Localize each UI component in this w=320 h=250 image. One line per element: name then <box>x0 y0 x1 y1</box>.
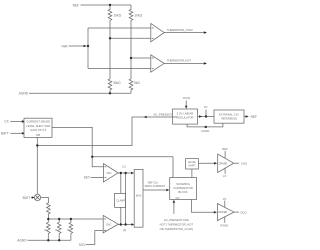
svg-text:R: R <box>67 228 69 232</box>
svg-text:R: R <box>44 228 46 232</box>
svg-text:AC_PRESENT: AC_PRESENT <box>153 112 172 116</box>
svg-text:LX: LX <box>223 174 227 178</box>
svg-text:DAC: DAC <box>107 172 112 175</box>
svg-text:PGND: PGND <box>220 224 228 228</box>
svg-text:THERMISTOR_HOT: THERMISTOR_HOT <box>167 59 191 63</box>
svg-text:DAC: DAC <box>106 223 111 226</box>
svg-text:GAIN OF 5.5: GAIN OF 5.5 <box>30 128 47 132</box>
svg-text:P1: P1 <box>223 197 227 201</box>
svg-text:DB: DB <box>36 133 40 137</box>
svg-text:DCO: DCO <box>241 210 248 214</box>
svg-text:10kΩ: 10kΩ <box>114 13 122 17</box>
svg-text:R: R <box>55 228 57 232</box>
svg-text:DRIVER: DRIVER <box>218 211 227 214</box>
svg-text:AGND: AGND <box>201 129 209 133</box>
svg-text:CX: CX <box>4 120 9 124</box>
svg-text:REF (2)+: REF (2)+ <box>148 180 159 184</box>
svg-text:SET: SET <box>84 176 90 180</box>
svg-text:LEVEL: LEVEL <box>188 160 197 164</box>
svg-text:BATT: BATT <box>1 131 9 135</box>
svg-text:ON: ON <box>176 196 180 200</box>
svg-text:SOV: SOV <box>79 243 87 247</box>
svg-text:10kΩ: 10kΩ <box>135 13 143 17</box>
svg-text:ZERO CURRENT: ZERO CURRENT <box>145 184 166 188</box>
svg-text:BATT: BATT <box>23 196 31 200</box>
svg-text:REFERENCE: REFERENCE <box>221 117 237 121</box>
svg-text:THR: THR <box>61 44 68 48</box>
svg-text:30kΩ: 30kΩ <box>113 81 121 85</box>
svg-text:CHG: CHG <box>241 161 247 165</box>
svg-text:MUX: MUX <box>136 193 142 197</box>
svg-text:DCIN: DCIN <box>183 96 190 100</box>
svg-text:CLAMP: CLAMP <box>116 199 125 203</box>
svg-text:AC_PRESENT AND: AC_PRESENT AND <box>164 218 189 222</box>
svg-text:REF: REF <box>251 115 257 119</box>
svg-text:EXTERNAL 2.5V: EXTERNAL 2.5V <box>219 112 239 116</box>
svg-text:(2): (2) <box>123 228 126 232</box>
svg-text:AGND: AGND <box>19 92 29 96</box>
svg-text:P1: P1 <box>204 105 208 109</box>
svg-text:THERMISTOR_COLD: THERMISTOR_COLD <box>167 28 193 32</box>
svg-text:9kΩ: 9kΩ <box>134 81 140 85</box>
svg-text:NOT (THERMISTOR_HOT: NOT (THERMISTOR_HOT <box>160 223 194 227</box>
svg-text:REF: REF <box>222 147 228 151</box>
svg-text:REF: REF <box>73 3 79 7</box>
svg-text:DRIVER: DRIVER <box>219 162 228 165</box>
svg-text:BLOCK: BLOCK <box>178 190 188 194</box>
svg-text:REGULATOR: REGULATOR <box>176 116 193 120</box>
svg-text:OR THERMISTOR_COLD): OR THERMISTOR_COLD) <box>160 227 194 231</box>
svg-text:SHIFT: SHIFT <box>188 163 196 167</box>
svg-text:(1): (1) <box>122 165 125 169</box>
svg-text:AGND: AGND <box>17 239 27 243</box>
